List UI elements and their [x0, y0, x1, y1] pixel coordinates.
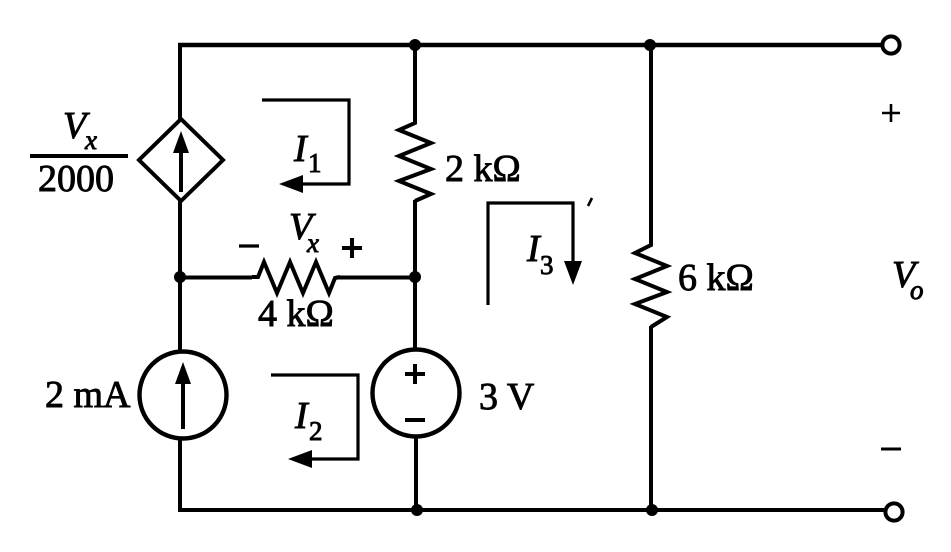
mesh arrow I3 [488, 203, 582, 305]
wire 2mA to bottom rail [178, 437, 182, 512]
svg-text:2 mA: 2 mA [45, 374, 131, 416]
wire 3V to bottom rail [414, 436, 418, 511]
label Vx across 4k [289, 206, 319, 258]
wire 6k bottom [649, 326, 653, 511]
svg-text:1: 1 [308, 148, 322, 178]
wire 6k top [649, 45, 653, 245]
svg-text:2 kΩ: 2 kΩ [445, 148, 521, 190]
voltage source plus [405, 364, 425, 384]
voltage source V1 3V circle [373, 350, 460, 437]
svg-text:2000: 2000 [38, 158, 114, 200]
resistor R 2k vertical zigzag [399, 121, 431, 201]
terminal bottom-right open circle [885, 503, 902, 520]
label I3 [526, 228, 554, 280]
label plus of Vx [342, 238, 362, 258]
svg-text:o: o [910, 275, 924, 305]
node bottom-6k dot [646, 504, 658, 516]
wire top rail [178, 43, 881, 47]
wire left vertical middle (dependent source to node A) [178, 200, 182, 278]
dependent source U1 diamond [139, 119, 223, 201]
node top-2k dot [409, 39, 421, 51]
current source I 2mA circle [140, 352, 227, 439]
wire node A to 2mA source [178, 277, 182, 353]
terminal top-right open circle [882, 36, 899, 53]
node B dot (middle junction) [409, 271, 421, 283]
wire middle right segment [336, 276, 416, 280]
mesh arrow I1 [262, 100, 349, 193]
resistor R 6k vertical zigzag [635, 243, 667, 327]
mesh arrow I2 [271, 375, 358, 468]
label I1 [293, 128, 322, 178]
svg-text:4 kΩ: 4 kΩ [258, 293, 334, 335]
current source arrow [175, 362, 191, 429]
svg-text:I: I [294, 395, 310, 437]
label minus of Vx [239, 244, 259, 247]
resistor R 4k horizontal zigzag [252, 262, 340, 293]
svg-text:2: 2 [309, 416, 323, 446]
label Vx/2000 [30, 105, 128, 200]
voltage source minus [405, 418, 425, 422]
label minus output [881, 448, 901, 451]
label Vo [892, 254, 924, 305]
label plus output [882, 104, 900, 122]
wire 2k bottom to node B [413, 200, 417, 278]
wire middle left segment [180, 276, 252, 280]
label I2 [294, 395, 323, 446]
svg-text:x: x [306, 228, 319, 258]
svg-text:x: x [84, 125, 97, 155]
wire node B to 3V source [413, 277, 417, 351]
node A dot (left middle junction) [174, 271, 186, 283]
dependent source arrow [173, 131, 189, 192]
wire bottom rail [178, 508, 884, 512]
node bottom-3V dot [411, 504, 423, 516]
wire 2k top stub [413, 44, 417, 122]
svg-text:6 kΩ: 6 kΩ [678, 257, 754, 299]
tick mark near I3 [588, 198, 592, 206]
svg-text:3 V: 3 V [479, 376, 535, 418]
svg-text:3: 3 [540, 250, 554, 280]
node top-6k dot [644, 39, 656, 51]
wire left vertical top (top rail to dependent source) [178, 43, 182, 120]
svg-text:I: I [293, 128, 309, 170]
